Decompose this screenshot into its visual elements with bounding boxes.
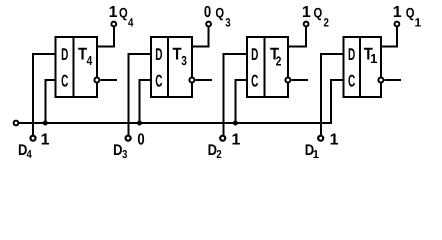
svg-text:2: 2: [276, 54, 282, 69]
svg-text:D: D: [61, 45, 68, 64]
svg-text:1: 1: [393, 4, 402, 21]
svg-text:4: 4: [87, 53, 93, 68]
svg-text:4: 4: [128, 16, 134, 30]
svg-text:1: 1: [414, 16, 421, 30]
svg-text:D: D: [113, 142, 122, 159]
svg-text:1: 1: [232, 132, 241, 149]
svg-text:3: 3: [122, 149, 127, 161]
svg-text:D: D: [348, 45, 355, 64]
svg-text:C: C: [348, 72, 355, 91]
svg-text:1: 1: [41, 132, 50, 149]
svg-text:D: D: [155, 45, 162, 64]
svg-text:D: D: [251, 45, 258, 64]
svg-text:4: 4: [27, 149, 33, 161]
svg-text:1: 1: [330, 132, 339, 149]
svg-text:C: C: [61, 72, 68, 91]
svg-text:1: 1: [370, 51, 377, 66]
svg-text:0: 0: [137, 132, 144, 149]
svg-text:Q: Q: [119, 5, 128, 21]
svg-text:C: C: [251, 72, 258, 91]
svg-text:3: 3: [225, 16, 231, 30]
svg-text:1: 1: [302, 4, 311, 21]
svg-text:1: 1: [109, 4, 118, 21]
svg-text:0: 0: [204, 4, 211, 21]
svg-text:Q: Q: [406, 5, 415, 21]
svg-text:2: 2: [324, 16, 330, 30]
svg-text:C: C: [155, 72, 162, 91]
svg-text:Q: Q: [314, 5, 323, 21]
svg-text:1: 1: [313, 149, 320, 161]
svg-text:3: 3: [181, 53, 187, 68]
svg-text:Q: Q: [215, 5, 224, 21]
svg-text:2: 2: [216, 149, 221, 161]
